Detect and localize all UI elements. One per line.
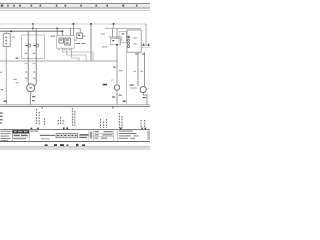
title block left column text xyxy=(1,131,12,141)
mid bus wire xyxy=(0,58,117,61)
node junction dots top xyxy=(10,23,115,32)
fuse strip labels xyxy=(1,5,138,7)
fuse strip header band xyxy=(0,3,150,8)
motor M (pump) xyxy=(27,84,43,109)
right sensor wires xyxy=(133,52,144,86)
title block center text rows xyxy=(90,131,113,138)
track numbers above title block xyxy=(31,127,146,129)
title block dark header SEAT xyxy=(13,130,30,133)
wire A-B link xyxy=(32,24,34,31)
title block doc number xyxy=(31,131,55,140)
wire from unit left edge to rail xyxy=(123,52,127,104)
track legend vertical texts xyxy=(37,108,145,128)
relay J terminal wires up xyxy=(57,24,73,36)
title block brand text xyxy=(79,134,88,138)
left margin note xyxy=(0,112,3,123)
title block right text rows xyxy=(119,131,150,140)
wires from control unit to right edge xyxy=(141,44,150,48)
switch E (x80 small box) xyxy=(75,28,85,44)
wire bus 30 (top feed horizontal) xyxy=(0,24,146,45)
relay J output elbows xyxy=(62,48,93,61)
wire bus X (third horizontal) xyxy=(0,30,63,32)
wire from K1 to ground rail xyxy=(0,47,18,105)
relay J terminal numbers xyxy=(58,48,71,51)
mid bus drop to sensor xyxy=(113,45,123,84)
ground rail 31 (bottom double line) xyxy=(0,105,150,107)
viewer status bar xyxy=(0,147,150,150)
wire labels below fuse box xyxy=(25,53,36,79)
control unit U (right tall box) xyxy=(127,30,141,52)
switch cluster x112 xyxy=(101,24,122,47)
wire x91 vertical xyxy=(90,24,92,61)
relay J (center cluster) xyxy=(51,36,75,49)
fuse box outline (left group) xyxy=(22,35,45,58)
wire bus 15 (second horizontal, two segments) xyxy=(0,27,141,29)
viewer page controls xyxy=(45,144,85,146)
sensor G (center-right circle) xyxy=(103,80,122,109)
fuse symbols on F1/F2 xyxy=(25,44,38,47)
connector box x119 xyxy=(119,31,126,42)
wire F2 vertical xyxy=(35,28,37,85)
title block code box xyxy=(13,134,30,139)
relay K1 (left small box) xyxy=(3,31,14,46)
title block frame xyxy=(0,130,150,142)
right sensor G2 xyxy=(130,84,147,104)
header underline xyxy=(0,10,150,12)
wire F1 vertical xyxy=(27,31,29,84)
title block page boxes xyxy=(56,133,77,137)
